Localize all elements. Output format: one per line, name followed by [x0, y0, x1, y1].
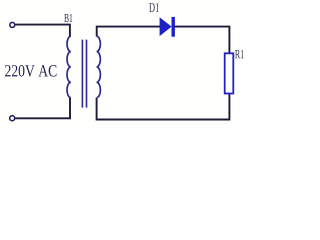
label D1 [149, 3, 159, 12]
diode D1 cathode bar [172, 17, 175, 37]
wire resistor bottom to bottom rail to transformer secondary bottom [97, 94, 230, 120]
transformer core line left [81, 40, 83, 108]
transformer core line right [86, 40, 88, 108]
transformer B1 secondary winding (right coil) [97, 36, 101, 97]
terminal top-left [10, 22, 15, 27]
wire transformer secondary top to diode anode [97, 27, 161, 37]
wire diode cathode to resistor top [174, 27, 230, 54]
wire bottom-left to transformer primary bottom [15, 98, 70, 119]
diode D1 triangle (anode) [160, 17, 172, 36]
wire top-left to transformer primary top [15, 25, 70, 37]
label 220V AC source [5, 65, 56, 77]
label R1 [235, 50, 244, 58]
terminal bottom-left [10, 116, 15, 121]
label B1 [64, 14, 72, 22]
resistor R1 body [225, 53, 234, 93]
transformer B1 primary winding (left coil) [67, 36, 71, 97]
